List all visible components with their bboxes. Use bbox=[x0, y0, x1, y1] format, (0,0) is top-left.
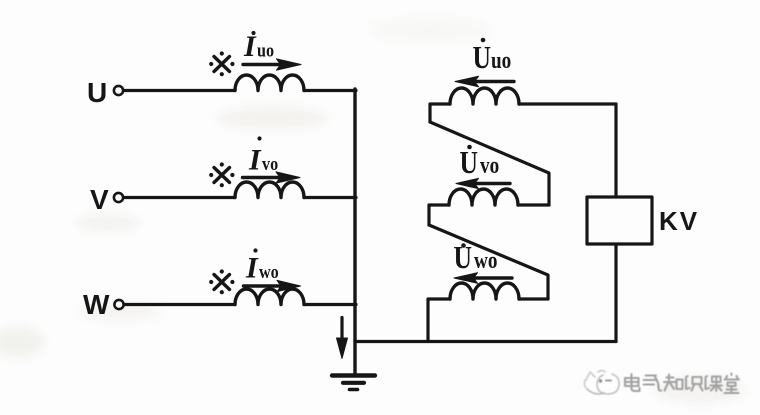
watermark char zhi bbox=[664, 375, 683, 391]
inductor L-V (primary winding V) bbox=[235, 182, 304, 198]
current arrow Ivo bbox=[243, 172, 301, 183]
voltage label Uvo bbox=[460, 145, 500, 181]
svg-text:wo: wo bbox=[474, 247, 498, 274]
secondary winding c (Uwo coil) bbox=[450, 283, 519, 299]
svg-text:uo: uo bbox=[491, 47, 511, 74]
current label Ivo bbox=[248, 136, 278, 176]
svg-text:I: I bbox=[243, 30, 257, 63]
current arrow Iuo bbox=[243, 59, 301, 70]
right rail (to KV box) bbox=[614, 104, 617, 342]
wire U-left bbox=[124, 89, 236, 92]
polarity mark (U row) bbox=[209, 51, 234, 76]
bottom return wire bbox=[355, 340, 616, 343]
svg-text:vo: vo bbox=[480, 152, 499, 179]
wire U-right bbox=[304, 89, 356, 92]
svg-text:I: I bbox=[248, 144, 262, 177]
svg-text:wo: wo bbox=[259, 261, 279, 283]
svg-text:KV: KV bbox=[659, 206, 699, 236]
voltage arrow Uuo (left) bbox=[455, 76, 514, 86]
polarity mark (V row) bbox=[209, 162, 234, 187]
wire W-left bbox=[124, 303, 235, 306]
phase label V bbox=[90, 184, 109, 215]
wire: coil-c left lead to bottom wire bbox=[428, 299, 450, 342]
wire W-right bbox=[304, 303, 356, 306]
voltage arrow Uvo (left) bbox=[456, 178, 510, 188]
zigzag link a-b bbox=[430, 122, 549, 205]
label KV bbox=[659, 206, 699, 236]
svg-text:U: U bbox=[473, 40, 492, 75]
svg-text:U: U bbox=[87, 77, 107, 108]
wire: coil-c right lead bbox=[519, 297, 548, 300]
watermark char shi bbox=[686, 376, 703, 391]
svg-text:W: W bbox=[83, 289, 110, 320]
watermark char dian bbox=[625, 374, 640, 391]
wire V-left bbox=[124, 196, 236, 199]
current arrow Iwo bbox=[244, 280, 301, 291]
wire: coil-b left lead bbox=[429, 205, 449, 225]
ground symbol bbox=[332, 376, 375, 390]
svg-text:U: U bbox=[460, 145, 479, 180]
inductor L-W (primary winding W) bbox=[235, 289, 304, 305]
phase label W bbox=[83, 289, 110, 320]
phase label U bbox=[87, 77, 107, 108]
polarity mark (W row) bbox=[209, 269, 234, 294]
svg-text:I: I bbox=[245, 252, 259, 285]
relay box KV bbox=[587, 197, 652, 244]
terminal V bbox=[114, 193, 123, 202]
wire: coil-b right lead bbox=[518, 203, 549, 206]
secondary winding a (Uuo coil) bbox=[450, 88, 519, 104]
zigzag link b-c bbox=[429, 225, 548, 299]
watermark char tang bbox=[725, 374, 740, 394]
terminal W bbox=[114, 300, 123, 309]
current label Iwo bbox=[245, 248, 279, 284]
svg-text:uo: uo bbox=[257, 39, 274, 61]
watermark char qi bbox=[644, 376, 662, 391]
secondary winding b (Uvo coil) bbox=[449, 189, 518, 205]
svg-text:V: V bbox=[90, 184, 109, 215]
terminal U bbox=[114, 86, 123, 95]
svg-text:vo: vo bbox=[262, 153, 278, 175]
wire V-right bbox=[304, 196, 356, 199]
neutral bus wire (vertical) bbox=[353, 89, 356, 375]
wire: coil-a right lead to right rail bbox=[519, 102, 616, 105]
current label Iuo bbox=[243, 30, 274, 63]
voltage label Uuo bbox=[473, 38, 512, 76]
earth current arrow (down) bbox=[337, 318, 348, 359]
voltage label Uwo bbox=[454, 240, 498, 275]
watermark logo bbox=[584, 371, 619, 395]
inductor L-U (primary winding U) bbox=[235, 75, 304, 91]
voltage arrow Uwo (left) bbox=[454, 273, 512, 283]
wire: coil-a left lead bbox=[430, 104, 450, 122]
watermark char ke bbox=[706, 376, 723, 391]
